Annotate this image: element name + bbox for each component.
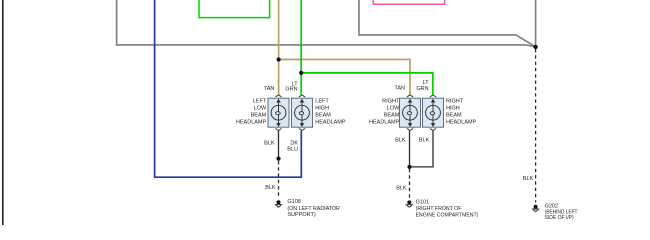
- svg-text:BLK: BLK: [419, 137, 430, 143]
- svg-text:LEFT: LEFT: [253, 99, 267, 105]
- wire BLK from right high beam: [410, 131, 434, 167]
- ground G101: [406, 200, 414, 207]
- label LEFT LOW BEAM HEADLAMP: [236, 99, 267, 126]
- svg-text:BLK: BLK: [395, 137, 406, 143]
- label G101 (RIGHT FRONT OF ENGINE COMPARTMENT): [416, 199, 479, 218]
- svg-text:HEADLAMP: HEADLAMP: [446, 120, 477, 126]
- svg-text:BLU: BLU: [287, 147, 298, 153]
- svg-text:G101: G101: [416, 199, 429, 205]
- wire LT GRN vertical from module: [300, 0, 302, 95]
- lamp RIGHT HIGH BEAM HEADLAMP: [423, 95, 444, 131]
- svg-text:LOW: LOW: [387, 106, 400, 112]
- svg-text:BEAM: BEAM: [251, 113, 267, 119]
- splice (tan junction): [277, 57, 281, 61]
- wire TAN vertical from module: [278, 0, 280, 95]
- svg-text:TAN: TAN: [264, 86, 275, 92]
- ground G108: [275, 200, 283, 207]
- svg-text:HEADLAMP: HEADLAMP: [315, 120, 346, 126]
- module box (left, gray): [117, 0, 536, 47]
- svg-text:BLK: BLK: [264, 141, 275, 147]
- label LEFT HIGH BEAM HEADLAMP: [315, 99, 346, 126]
- svg-text:ENGINE COMPARTMENT): ENGINE COMPARTMENT): [416, 213, 479, 219]
- svg-text:HIGH: HIGH: [315, 106, 329, 112]
- svg-text:BEAM: BEAM: [315, 113, 331, 119]
- svg-text:RIGHT: RIGHT: [382, 99, 400, 105]
- splice on BLK: [276, 157, 280, 161]
- module box (right, gray): [359, 0, 536, 47]
- svg-text:BLK: BLK: [523, 176, 534, 182]
- svg-text:TAN: TAN: [394, 86, 405, 92]
- label G202 (BEHIND LEFT SIDE OF I/P): [545, 204, 578, 222]
- lamp LEFT HIGH BEAM HEADLAMP: [292, 95, 313, 131]
- dashed BLK to G101: [409, 169, 411, 198]
- dashed BLK to G108: [278, 161, 280, 198]
- wire LT GRN branch to right high beam: [301, 73, 433, 95]
- splice (green junction): [299, 71, 303, 75]
- splice on BLK (right): [407, 165, 411, 169]
- module box right edge: [535, 0, 537, 47]
- svg-text:BLK: BLK: [396, 186, 407, 192]
- ground G202: [532, 205, 540, 212]
- svg-text:RIGHT: RIGHT: [446, 99, 464, 105]
- svg-text:BLK: BLK: [265, 185, 276, 191]
- svg-text:HEADLAMP: HEADLAMP: [236, 120, 267, 126]
- left image border: [2, 0, 4, 225]
- pink connector box (top right, cut off): [373, 0, 444, 4]
- svg-text:(RIGHT FRONT OF: (RIGHT FRONT OF: [416, 206, 462, 212]
- label G108 (ON LEFT RADIATOR SUPPORT): [287, 199, 340, 218]
- wire BLK from left low beam: [278, 131, 280, 159]
- dashed BLK from module to G202: [535, 49, 537, 202]
- svg-text:HEADLAMP: HEADLAMP: [369, 120, 400, 126]
- svg-text:LEFT: LEFT: [315, 99, 329, 105]
- svg-text:BEAM: BEAM: [384, 113, 400, 119]
- svg-text:GRN: GRN: [416, 86, 428, 92]
- svg-text:(ON LEFT RADIATOR: (ON LEFT RADIATOR: [287, 206, 340, 212]
- svg-text:SIDE OF I/P): SIDE OF I/P): [545, 215, 574, 221]
- lamp RIGHT LOW BEAM HEADLAMP: [400, 95, 421, 131]
- svg-text:SUPPORT): SUPPORT): [287, 212, 315, 218]
- wire BLK from right low beam: [409, 131, 411, 167]
- svg-text:HIGH: HIGH: [446, 106, 460, 112]
- svg-text:GRN: GRN: [285, 87, 297, 93]
- label RIGHT LOW BEAM HEADLAMP: [369, 99, 400, 126]
- lamp LEFT LOW BEAM HEADLAMP: [268, 95, 289, 131]
- wire TAN branch to right low beam: [279, 60, 410, 95]
- svg-text:BEAM: BEAM: [446, 113, 462, 119]
- label RIGHT HIGH BEAM HEADLAMP: [446, 99, 477, 126]
- svg-text:LOW: LOW: [254, 106, 267, 112]
- svg-text:G108: G108: [287, 199, 300, 205]
- wire DK BLU (big U: from module down, across, up to left high beam): [155, 0, 302, 177]
- green connector box (top left, cut off): [199, 0, 270, 18]
- junction dot at module outlets: [533, 45, 537, 49]
